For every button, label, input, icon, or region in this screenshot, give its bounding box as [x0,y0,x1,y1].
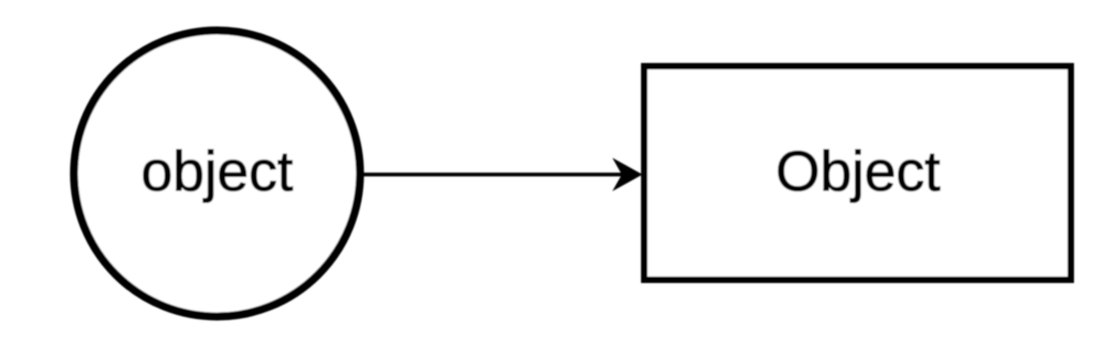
rectangle node "Object" [644,66,1071,280]
arrowhead [612,158,642,191]
wire: connector from circle to rectangle [362,173,623,177]
svg-text:Object: Object [776,140,941,204]
circle node "object" [74,31,360,317]
svg-text:object: object [141,140,293,204]
